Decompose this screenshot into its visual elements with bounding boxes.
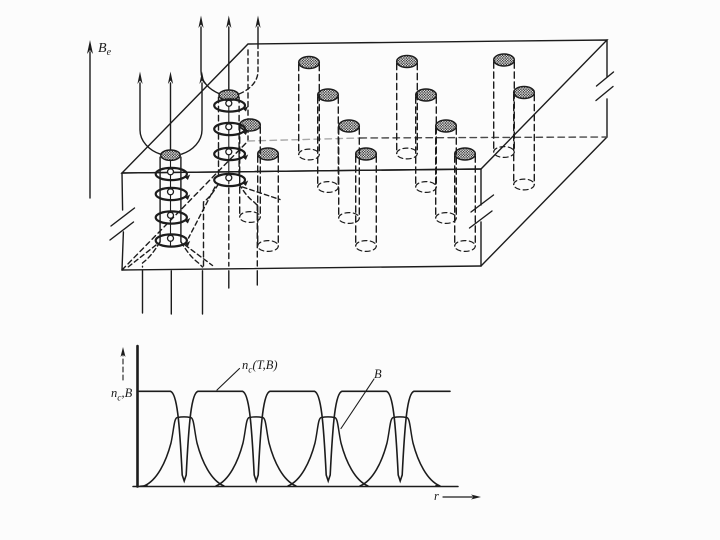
superfluid density curve n(T,B) with dips at vortex cores	[139, 391, 450, 481]
vortex V1 current ring at y=194	[156, 188, 191, 200]
graph y-axis	[136, 346, 139, 487]
graph x-axis	[133, 486, 458, 488]
pointer line to n(T,B) label	[217, 369, 240, 391]
vortex V2 axis line	[228, 100, 230, 184]
slab right face bottom edge	[481, 137, 607, 266]
vortex V1 current ring at y=174	[156, 168, 191, 180]
flux tube at (366,154)	[356, 148, 377, 251]
hidden back-left vertical edge	[247, 50, 249, 141]
vortex V2 field lines above slab	[198, 16, 260, 95]
vortex V2 flare below (hidden)	[189, 184, 281, 238]
flux tube at (465,154)	[455, 148, 476, 251]
r axis arrow	[443, 496, 476, 498]
flux tube at (407,61.5)	[397, 56, 418, 159]
vortex V1 flare below (into bottom face)	[128, 242, 213, 268]
vortex V2 core cap	[219, 90, 239, 100]
flux tube at (524,92.5)	[514, 87, 535, 190]
vortex V1 current ring at y=217.5	[156, 211, 191, 223]
vortex V1 axis line	[170, 160, 172, 246]
flux tube at (250,125)	[240, 119, 261, 222]
vortex V1 tube sides	[159, 157, 161, 242]
vortex V1 core cap	[161, 150, 180, 160]
vortex V1 current ring at y=240.5	[156, 234, 191, 246]
flux tube at (446,126)	[436, 120, 457, 223]
slab front-left vertical edge (with break gap)	[121, 173, 124, 210]
vortex V2 current ring at y=129	[214, 123, 248, 135]
microscopic field curve B with peaks at vortex cores	[140, 485, 147, 488]
hidden bottom-left edge	[122, 141, 248, 270]
flux tube at (309,62.5)	[299, 57, 320, 160]
vortex V2 current ring at y=105.5	[214, 99, 248, 111]
external field arrow B_e	[89, 52, 91, 198]
slab back-right vertical edge (with break gap)	[606, 40, 608, 77]
break mark on back-right edge	[597, 72, 614, 86]
slab top face outline	[122, 40, 607, 173]
vortex V2 tube sides (hidden, dashed)	[218, 97, 220, 176]
vortex V2 current ring at y=154	[214, 148, 248, 160]
svg-text:B: B	[374, 367, 382, 381]
vortex V2 field lines down through slab (hidden)	[203, 205, 205, 266]
vortex V1 field lines above slab	[137, 72, 204, 155]
flux tube at (328,95)	[318, 89, 339, 192]
vortex V2 current ring at y=180	[214, 174, 248, 186]
svg-text:r: r	[434, 489, 439, 503]
small dashed arrow near y-axis	[122, 354, 124, 380]
slab front bottom edge	[122, 266, 481, 270]
flux tube at (349,126)	[339, 120, 360, 223]
flux tube at (504,60)	[494, 54, 515, 157]
hidden bottom-back edge	[248, 138, 360, 141]
slab front-right vertical edge (with break gap)	[480, 169, 482, 205]
break mark on front-left edge	[111, 208, 135, 226]
vortex V1 field lines below slab	[142, 271, 144, 313]
flux tube at (426,95)	[416, 89, 437, 192]
slab front face: top edge	[122, 169, 481, 173]
flux tube at (268,154)	[258, 148, 279, 251]
pointer line to B label	[341, 379, 374, 429]
vortex V2 field lines below slab	[228, 271, 230, 288]
break mark on front-right edge	[471, 195, 494, 212]
